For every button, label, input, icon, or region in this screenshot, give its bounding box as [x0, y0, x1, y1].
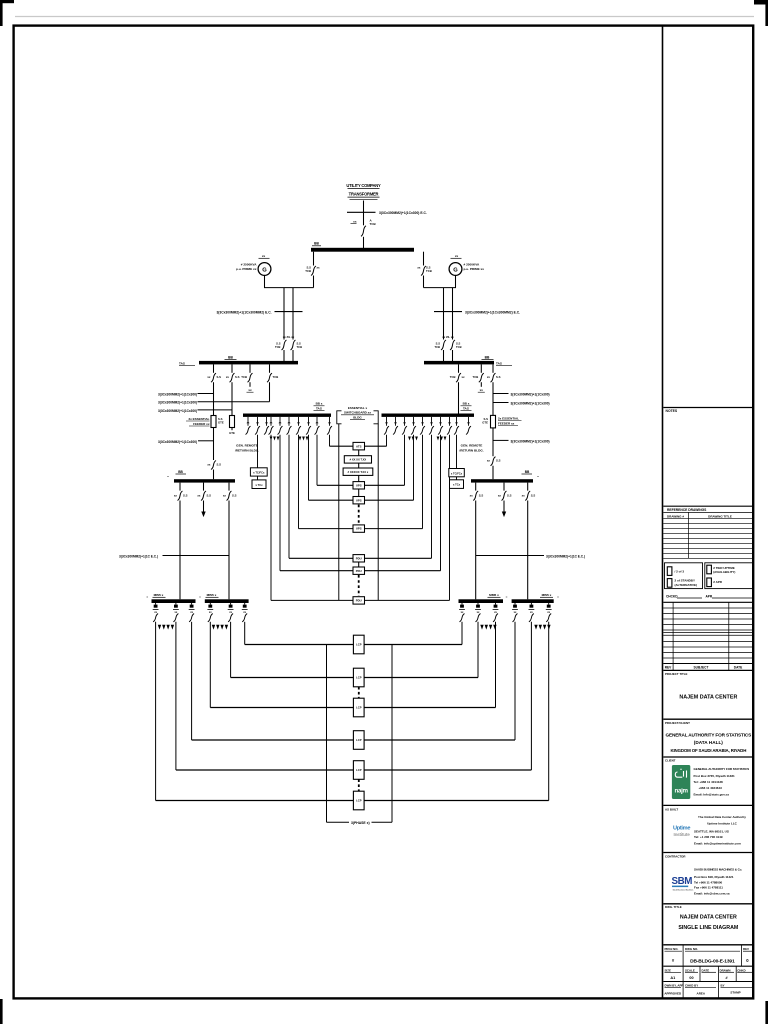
- svg-text:BB: BB: [228, 355, 233, 359]
- title block: sheet title cell: [663, 905, 753, 945]
- svg-text:S.S: S.S: [507, 493, 512, 497]
- distribution row 5: tie line and panel: [176, 761, 532, 780]
- svg-text:S.S: S.S: [479, 493, 484, 497]
- title block: number table: [663, 945, 753, 999]
- svg-text:S.S: S.S: [531, 493, 536, 497]
- svg-text:=: =: [146, 595, 148, 599]
- svg-text:3(3Cx300MM2)+1(1Cx300): 3(3Cx300MM2)+1(1Cx300): [158, 393, 197, 397]
- svg-text:xx: xx: [487, 459, 491, 463]
- breaker: bus right feeder CB: [417, 252, 431, 288]
- MTS box U2: [344, 456, 371, 463]
- svg-text:Post Box 818, Riyadh 11421: Post Box 818, Riyadh 11421: [694, 875, 734, 879]
- svg-text:SINGLE LINE DIAGRAM: SINGLE LINE DIAGRAM: [678, 925, 739, 931]
- svg-text:/RETURN BLDG.: /RETURN BLDG.: [235, 448, 259, 452]
- svg-text:Email: Info@stats.gov.sa: Email: Info@stats.gov.sa: [694, 792, 730, 796]
- svg-text:S.S: S.S: [496, 375, 501, 379]
- svg-text:3(3Cx300MM2)+1(1C E.C.): 3(3Cx300MM2)+1(1C E.C.): [546, 555, 585, 559]
- svg-text:3(3Cx300MM2)+1(1C E.C.): 3(3Cx300MM2)+1(1C E.C.): [119, 555, 158, 559]
- svg-text:Tel +966 11 4788000: Tel +966 11 4788000: [694, 880, 723, 884]
- breaker: sub-bus incomer right: [487, 457, 501, 480]
- svg-text:DATE: DATE: [734, 665, 742, 669]
- svg-text:LCP: LCP: [356, 738, 362, 742]
- essential bus feeder breakers (rows): [246, 417, 472, 435]
- distribution row 1: tie line and panel: [245, 635, 462, 654]
- svg-text:2 APR: 2 APR: [713, 580, 723, 584]
- svg-text:2x ESSENTIAL: 2x ESSENTIAL: [498, 417, 519, 421]
- title block left border: [662, 26, 664, 999]
- wire: F1 down to sub bus: [213, 428, 215, 461]
- svg-text:xx: xx: [207, 375, 211, 379]
- svg-text:MBB x: MBB x: [154, 593, 164, 597]
- svg-text:SCALE: SCALE: [685, 968, 695, 972]
- svg-text:3(3Cx300MM2)+1(1Cx300MM2) E.C.: 3(3Cx300MM2)+1(1Cx300MM2) E.C.: [465, 310, 520, 314]
- svg-text:NAJEM DATA CENTER: NAJEM DATA CENTER: [679, 694, 737, 700]
- svg-text:xx: xx: [248, 388, 252, 392]
- distribution row 6: tie line and panel: [156, 791, 549, 810]
- svg-text:=: =: [199, 595, 201, 599]
- svg-text:MBB x: MBB x: [207, 593, 217, 597]
- cable tag B: [158, 401, 270, 405]
- svg-text:xx: xx: [455, 254, 459, 258]
- feeder: SMB-B spare: [498, 483, 512, 517]
- svg-text:S.S: S.S: [183, 493, 188, 497]
- svg-text:3(3Cx300MM2)+1(1Cx300) E.C.: 3(3Cx300MM2)+1(1Cx300) E.C.: [379, 211, 427, 215]
- svg-text:MBB x: MBB x: [542, 593, 552, 597]
- utility incoming source label: [346, 183, 381, 200]
- svg-text:PDU: PDU: [356, 556, 362, 560]
- svg-text:3(3Cx300MM2)+1(1Cx300): 3(3Cx300MM2)+1(1Cx300): [511, 440, 550, 444]
- wire: PDU to UPS: [358, 475, 360, 481]
- svg-text:CHKD BY: CHKD BY: [685, 983, 698, 987]
- dashed riser U8-U9: [358, 575, 360, 596]
- bus ESB-B (essential bus right segment): [382, 402, 475, 417]
- svg-text:REV: REV: [743, 947, 749, 951]
- UPS U4: [317, 482, 405, 489]
- svg-text:PROJECT TITLE: PROJECT TITLE: [665, 672, 688, 676]
- svg-text:(ALTERNATIVE): (ALTERNATIVE): [675, 583, 698, 587]
- title block: consultant cell with najm logo: [663, 758, 753, 805]
- distribution row 4: tie line and panel: [192, 731, 515, 750]
- wires: nested connectors to ATS/UPS chain: [271, 435, 450, 601]
- svg-text:GEN. REMOTE: GEN. REMOTE: [236, 444, 258, 448]
- svg-text:Fax +966 11 4788111: Fax +966 11 4788111: [694, 886, 723, 890]
- svg-text:xx: xx: [462, 375, 466, 379]
- svg-text:GENERAL AUTHORITY FOR STATISTI: GENERAL AUTHORITY FOR STATISTICS: [694, 767, 750, 771]
- svg-text:DRAWN: DRAWN: [720, 968, 731, 972]
- svg-text:GTE: GTE: [229, 431, 235, 435]
- svg-text:DWG NO.: DWG NO.: [685, 947, 698, 951]
- svg-text:TAG: TAG: [496, 361, 503, 365]
- svg-text:TCB: TCB: [426, 269, 432, 273]
- svg-text:p.u. PRIME xx: p.u. PRIME xx: [236, 267, 257, 271]
- svg-text:TCB: TCB: [456, 345, 462, 349]
- svg-text:KINGDOM OF SAUDI ARABIA, RIYAD: KINGDOM OF SAUDI ARABIA, RIYADH: [670, 748, 746, 753]
- svg-text:DATE: DATE: [702, 968, 710, 972]
- svg-text:xx: xx: [317, 266, 321, 270]
- title block: project title cell: [663, 672, 753, 719]
- svg-text:3(3Cx300MM2)+1(1Cx300): 3(3Cx300MM2)+1(1Cx300): [158, 409, 197, 413]
- bus SMB-A (left sub main bus): [167, 470, 235, 483]
- tie riser pair (essential bypass): [339, 424, 378, 601]
- svg-text:DWG. TITLE: DWG. TITLE: [665, 905, 682, 909]
- svg-text:TCB: TCB: [305, 269, 311, 273]
- svg-text:xx: xx: [487, 375, 491, 379]
- svg-text:S.S: S.S: [217, 462, 222, 466]
- bus MBB-D: [512, 593, 560, 603]
- svg-text:TCB: TCB: [370, 222, 377, 226]
- svg-text:SWITCHBOARD xx: SWITCHBOARD xx: [344, 411, 371, 415]
- corner registration mark bottom-right: [765, 1001, 768, 1024]
- cable tag E: [493, 402, 550, 406]
- svg-text:2x ESSENTIAL: 2x ESSENTIAL: [188, 417, 209, 421]
- bus LV-B (upper right bus): [424, 355, 512, 365]
- svg-text:=: =: [557, 595, 559, 599]
- bus SMB-B (right sub main bus): [471, 470, 539, 483]
- svg-text:xx ZIL xx: xx ZIL xx: [442, 335, 454, 339]
- svg-text:BB: BB: [485, 355, 490, 359]
- svg-text:S.S: S.S: [232, 493, 237, 497]
- svg-text:xx: xx: [470, 493, 474, 497]
- svg-text:G: G: [453, 268, 458, 274]
- svg-text:3(PHASE x): 3(PHASE x): [351, 821, 370, 825]
- svg-text:AS BUILT: AS BUILT: [665, 807, 678, 811]
- svg-text:Email: info@uptimeinstitute.co: Email: info@uptimeinstitute.com: [694, 841, 741, 845]
- wire: G2 to transformer pair: [424, 275, 457, 287]
- wire: MTS to PDU: [358, 463, 360, 468]
- wire: utility to main bus: [363, 201, 365, 249]
- svg-text:CLIENT: CLIENT: [665, 758, 676, 762]
- feeder: SMB-A to MBB-A: [174, 483, 188, 600]
- svg-text:x TC/FCx: x TC/FCx: [451, 471, 463, 475]
- svg-text:BB: BB: [525, 470, 530, 474]
- title block: notes section divider: [663, 408, 753, 414]
- cable tag mid-left: [158, 440, 214, 444]
- svg-text:TCB: TCB: [241, 375, 247, 379]
- svg-text:LCP: LCP: [356, 676, 362, 680]
- svg-text:p.u. PRIME xx: p.u. PRIME xx: [464, 267, 485, 271]
- feeder: SMB-B to MBB-C: [470, 483, 484, 600]
- UPS box U6: [299, 525, 423, 532]
- wire: UPS to UPS2: [358, 489, 360, 497]
- svg-text:SBM: SBM: [672, 876, 693, 887]
- svg-text:S.S: S.S: [217, 375, 222, 379]
- svg-text:BB: BB: [178, 470, 183, 474]
- gen remote label left: [235, 444, 259, 453]
- svg-text:xx: xx: [480, 388, 484, 392]
- title block: client cell: [663, 721, 753, 757]
- title block: checked / approved row: [663, 595, 753, 603]
- svg-text:DWN BY, APP: DWN BY, APP: [665, 983, 684, 987]
- svg-text:G: G: [262, 268, 267, 274]
- svg-text:REFERENCE DRAWINGS: REFERENCE DRAWINGS: [667, 508, 707, 512]
- svg-text:S.S: S.S: [496, 459, 501, 463]
- feeder breaker LV-B d3 with fuse F3: [482, 364, 521, 456]
- dashed riser U5-U6: [358, 505, 360, 525]
- svg-text:NAJEM DATA CENTER: NAJEM DATA CENTER: [680, 915, 737, 921]
- svg-text:x TCx: x TCx: [255, 483, 263, 487]
- svg-text:APPROVED: APPROVED: [664, 991, 682, 995]
- svg-text:xx: xx: [197, 493, 201, 497]
- svg-text:The Global Data Center Authori: The Global Data Center Authority: [698, 815, 746, 819]
- breaker: main incomer CB: [351, 219, 377, 237]
- title block: contractor cell with SBM logo: [663, 854, 753, 904]
- cable tag: right risers: [476, 555, 585, 559]
- svg-text:ATS: ATS: [356, 444, 362, 448]
- svg-text:TCB: TCB: [297, 345, 303, 349]
- wire: G1 to transformer pair: [264, 275, 314, 287]
- ATS U1: [330, 442, 387, 450]
- svg-text:TAG: TAG: [463, 406, 470, 410]
- svg-text:xx: xx: [522, 493, 526, 497]
- breaker: sub-bus incomer left: [207, 461, 221, 480]
- PDU box U3: [343, 468, 373, 475]
- bus MBB-A: [146, 593, 195, 603]
- svg-text:TCB: TCB: [273, 375, 279, 379]
- svg-text:TCB: TCB: [450, 375, 456, 379]
- title block: certifier cell with uptime logo: [663, 807, 753, 852]
- title block: revision table: [663, 602, 753, 670]
- feeder breaker LV-A d2 with fuse F2: [226, 364, 240, 435]
- feeder arrows (essential bus, right): [408, 437, 446, 441]
- PDU box U7: [289, 555, 432, 562]
- svg-text:=: =: [506, 595, 508, 599]
- cable tag A: [158, 393, 214, 397]
- svg-text:00: 00: [689, 976, 693, 980]
- svg-text:S.S: S.S: [235, 375, 240, 379]
- svg-text:3(3Cx300MM2)+1(1Cx300): 3(3Cx300MM2)+1(1Cx300): [511, 402, 550, 406]
- svg-text:TCB: TCB: [473, 375, 479, 379]
- svg-text:UPS: UPS: [356, 498, 362, 502]
- svg-text:xx: xx: [226, 375, 230, 379]
- svg-text:SIZE: SIZE: [665, 968, 671, 972]
- svg-text:PDU: PDU: [356, 569, 362, 573]
- feeder arrows MBB-C: [480, 625, 496, 630]
- svg-text:A1: A1: [670, 976, 675, 980]
- cable tag F: [493, 440, 550, 444]
- svg-text:S.S: S.S: [436, 342, 441, 346]
- svg-text:DRAWING #: DRAWING #: [667, 514, 684, 518]
- svg-text:GTE: GTE: [482, 420, 488, 424]
- svg-text:CONTRACTOR: CONTRACTOR: [665, 854, 686, 858]
- svg-text:PDU: PDU: [356, 599, 362, 603]
- svg-text:Saudi Business Machines: Saudi Business Machines: [673, 889, 694, 891]
- svg-text:3(3Cx300MM2)+1(1Cx300): 3(3Cx300MM2)+1(1Cx300): [511, 393, 550, 397]
- svg-text:3(3Cx300MM2)+1(1Cx300MM2) E.C.: 3(3Cx300MM2)+1(1Cx300MM2) E.C.: [216, 310, 271, 314]
- svg-text:Uptime Institute LLC: Uptime Institute LLC: [707, 822, 738, 826]
- svg-text:MBB x: MBB x: [489, 593, 499, 597]
- node: essential switchboard tie label: [337, 406, 378, 424]
- sheet edge (scan): [15, 16, 754, 18]
- svg-text:=: =: [537, 475, 539, 479]
- svg-text:GEN. REMOTE: GEN. REMOTE: [461, 444, 483, 448]
- svg-text:FEEDER xx: FEEDER xx: [193, 422, 210, 426]
- feeder breaker LV-A d1: [207, 364, 221, 415]
- svg-text:LCP: LCP: [356, 768, 362, 772]
- svg-text:GENERAL AUTHORITY FOR STATISTI: GENERAL AUTHORITY FOR STATISTICS: [666, 732, 752, 737]
- svg-text:PROJECT/CLIENT: PROJECT/CLIENT: [665, 721, 690, 725]
- svg-text:Tel: +1 206 706 4149: Tel: +1 206 706 4149: [694, 835, 723, 839]
- bus ESB-A (essential bus left segment): [243, 402, 331, 417]
- dashed riser row5-row6: [358, 779, 360, 791]
- svg-text:SAUDI BUSINESS MACHINES & Co.: SAUDI BUSINESS MACHINES & Co.: [694, 867, 742, 871]
- svg-text:# XXX/XX T.XX x: # XXX/XX T.XX x: [348, 470, 369, 474]
- bus MB (main 13.8kV bus): [311, 242, 414, 252]
- feeder: SMB-A to MBB-B: [223, 483, 237, 600]
- svg-text:CHCKD: CHCKD: [666, 595, 678, 599]
- svg-text:TAG: TAG: [179, 361, 186, 365]
- svg-text:xx: xx: [207, 462, 211, 466]
- distribution row 2: tie line and panel: [231, 668, 478, 687]
- generator G2 (right): [449, 254, 484, 275]
- UPS box U5: [309, 497, 414, 504]
- feeder: SMB-B to MBB-D: [522, 483, 536, 600]
- svg-text:Institute: Institute: [674, 832, 691, 837]
- feeder breaker LV-A d3 (spare): [241, 364, 253, 392]
- svg-text:# XX XX T.XX: # XX XX T.XX: [350, 458, 367, 462]
- svg-text:x TCx: x TCx: [453, 483, 461, 487]
- svg-text:LCP: LCP: [356, 799, 362, 803]
- wire: U7 to U8: [358, 562, 360, 567]
- svg-text:S.S: S.S: [456, 342, 461, 346]
- dashed riser row2-row3: [358, 687, 360, 698]
- svg-text:(DATA HALL): (DATA HALL): [694, 740, 724, 745]
- cable tag C: [158, 409, 232, 413]
- svg-text:xx: xx: [498, 493, 502, 497]
- svg-text:xx: xx: [353, 220, 357, 224]
- bypass risers to cable tag: [327, 645, 393, 826]
- generator G1 (left): [236, 254, 271, 275]
- svg-text:BY: BY: [721, 983, 725, 987]
- svg-text:BLDG: BLDG: [353, 415, 362, 419]
- svg-text:S.S: S.S: [276, 342, 281, 346]
- svg-text:TCB: TCB: [434, 345, 440, 349]
- svg-text:STAMP: STAMP: [730, 991, 740, 995]
- svg-text:GTE: GTE: [218, 420, 224, 424]
- svg-text:BB x: BB x: [463, 402, 470, 406]
- svg-text:FEEDER xx: FEEDER xx: [498, 422, 515, 426]
- feeder breaker LV-B d2 (spare): [473, 364, 485, 392]
- svg-text:PROJ NO.: PROJ NO.: [665, 947, 679, 951]
- feeder arrows MBB-D: [534, 625, 550, 630]
- title block: reference drawings table: [663, 506, 753, 558]
- corner registration mark top-right: [754, 0, 768, 26]
- svg-text:APR: APR: [706, 595, 713, 599]
- feeder breaker LV-B d1 to essential bus: [450, 364, 465, 413]
- svg-text:S.S: S.S: [207, 493, 212, 497]
- transformer feeders TX-A (parallel pair, left): [216, 288, 302, 363]
- svg-text:xx ZIL xx: xx ZIL xx: [283, 335, 295, 339]
- svg-text:DB-BLDG-00-E-1391: DB-BLDG-00-E-1391: [690, 959, 735, 965]
- PDU box U8: [280, 567, 441, 574]
- svg-text:TCB: TCB: [275, 345, 281, 349]
- svg-text:/RETURN BLDG.: /RETURN BLDG.: [459, 448, 483, 452]
- svg-text:/ 2 of 3: / 2 of 3: [675, 570, 685, 574]
- cable tag D: [493, 393, 550, 397]
- svg-text:CHKD: CHKD: [737, 968, 745, 972]
- corner registration mark top-left: [0, 0, 14, 26]
- cable tag: incoming feeder: [347, 211, 427, 215]
- data hall feeders: bus drops with metering: [153, 603, 552, 801]
- feeder breaker LV-A d4: [267, 364, 278, 401]
- svg-text:LCP: LCP: [356, 643, 362, 647]
- svg-text:UPS: UPS: [356, 527, 362, 531]
- svg-text:+966 11 4034643: +966 11 4034643: [699, 786, 723, 790]
- svg-text:NOTES: NOTES: [666, 409, 678, 413]
- svg-text:DRAWING TITLE: DRAWING TITLE: [708, 514, 732, 518]
- svg-text:Uptime: Uptime: [673, 826, 690, 832]
- svg-text:Email: info@sbm.com.sa: Email: info@sbm.com.sa: [694, 891, 730, 895]
- svg-text:3(3Cx300MM2)+1(1Cx300): 3(3Cx300MM2)+1(1Cx300): [158, 401, 197, 405]
- svg-text:LCP: LCP: [356, 706, 362, 710]
- svg-text:xx: xx: [174, 493, 178, 497]
- svg-text:Tel: +966 11 4014138: Tel: +966 11 4014138: [694, 780, 724, 784]
- svg-text:UTILITY COMPANY: UTILITY COMPANY: [346, 183, 381, 188]
- bus MBB-B: [199, 593, 248, 603]
- fuse/isolator F1: [186, 416, 224, 428]
- corner registration mark bottom-left: [0, 999, 3, 1024]
- svg-text:S.S: S.S: [297, 342, 302, 346]
- svg-text:UPS: UPS: [356, 483, 362, 487]
- cable tag: left risers: [119, 555, 229, 559]
- wire: ATS to MTS: [358, 450, 360, 456]
- stacked converter boxes (left): [250, 435, 267, 489]
- title block: legend boxes: [665, 563, 754, 589]
- svg-text:TRANSFORMER: TRANSFORMER: [349, 191, 379, 196]
- stacked converter boxes (right): [449, 435, 465, 489]
- gen remote label right: [459, 444, 483, 453]
- svg-text:x TC/FCx: x TC/FCx: [253, 471, 265, 475]
- distribution row 3: tie line and panel: [210, 698, 495, 717]
- breaker: bus left feeder CB: [305, 252, 320, 288]
- svg-text:xx: xx: [262, 254, 266, 258]
- transformer feeders TX-B (parallel pair, right): [434, 288, 520, 363]
- feeder arrows MBB-B: [212, 625, 228, 630]
- svg-text:BB: BB: [314, 242, 319, 246]
- svg-text:SUBJECT: SUBJECT: [694, 665, 709, 669]
- bus MBB-C: [459, 593, 508, 603]
- svg-text:(AVAILABILITY): (AVAILABILITY): [713, 570, 735, 574]
- svg-text:ESSENTIAL x: ESSENTIAL x: [348, 406, 368, 410]
- svg-text:najm: najm: [674, 788, 688, 795]
- svg-text:REV: REV: [665, 665, 672, 669]
- feeder arrows (essential bus, left): [270, 437, 309, 441]
- svg-text:SEATTLE, WA 98101, US: SEATTLE, WA 98101, US: [694, 830, 729, 834]
- svg-text:BB x: BB x: [316, 402, 323, 406]
- bus LV-A (upper left bus): [179, 355, 298, 365]
- svg-text:AREA: AREA: [697, 991, 706, 995]
- svg-text:Post Box 3735, Riyadh 11481: Post Box 3735, Riyadh 11481: [694, 774, 736, 778]
- feeder arrows MBB-A: [158, 625, 174, 630]
- svg-text:xx: xx: [417, 266, 421, 270]
- svg-text:3(3Cx300MM2)+1(1Cx300): 3(3Cx300MM2)+1(1Cx300): [158, 440, 197, 444]
- svg-text:xx: xx: [223, 493, 227, 497]
- svg-text:TAG: TAG: [316, 406, 323, 410]
- PDU box U9: [271, 597, 450, 604]
- feeder: SMB-A spare: [197, 483, 211, 517]
- svg-text:=: =: [167, 475, 169, 479]
